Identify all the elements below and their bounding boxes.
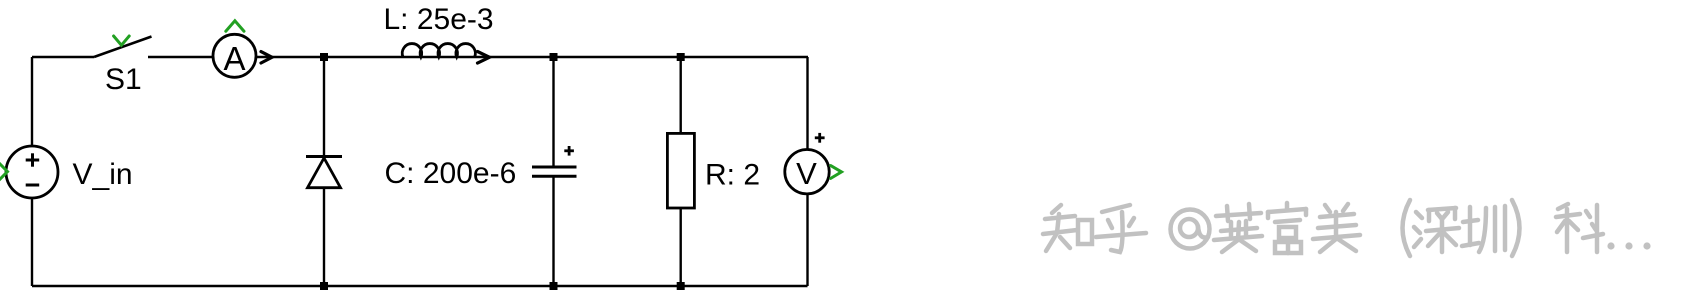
- svg-text:V_in: V_in: [73, 158, 133, 191]
- svg-text:R: 2: R: 2: [705, 159, 760, 192]
- svg-text:C: 200e-6: C: 200e-6: [385, 157, 517, 190]
- svg-text:S1: S1: [105, 63, 142, 96]
- svg-text:L: 25e-3: L: 25e-3: [384, 3, 494, 36]
- svg-text:A: A: [223, 40, 245, 77]
- svg-text:V: V: [796, 156, 817, 191]
